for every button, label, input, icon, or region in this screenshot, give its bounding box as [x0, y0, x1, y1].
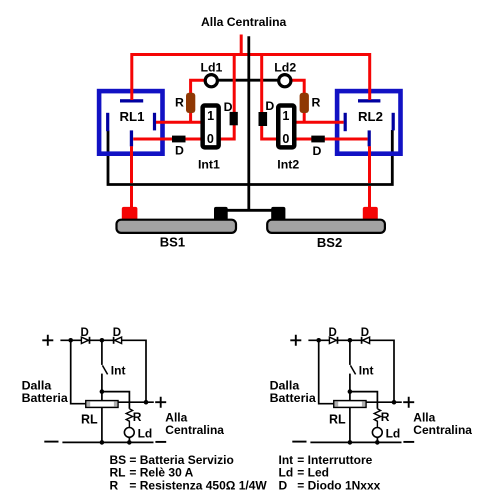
- svg-text:1: 1: [282, 109, 289, 123]
- svg-text:Int1: Int1: [198, 158, 220, 172]
- svg-text:Int: Int: [111, 364, 126, 378]
- svg-text:Ld2: Ld2: [274, 61, 296, 75]
- svg-text:BS2: BS2: [317, 235, 342, 250]
- svg-text:D: D: [224, 100, 233, 114]
- svg-text:RL1: RL1: [120, 109, 145, 124]
- svg-text:D: D: [265, 99, 274, 113]
- svg-text:R: R: [133, 410, 142, 424]
- svg-text:Batteria: Batteria: [22, 391, 68, 405]
- svg-text:R: R: [312, 96, 321, 110]
- svg-text:Alla Centralina: Alla Centralina: [201, 15, 287, 29]
- svg-text:0: 0: [282, 132, 289, 146]
- svg-text:D: D: [279, 478, 288, 492]
- svg-text:D: D: [313, 144, 322, 158]
- svg-text:RL2: RL2: [358, 109, 383, 124]
- svg-text:0: 0: [207, 132, 214, 146]
- svg-text:D: D: [81, 327, 89, 339]
- svg-text:R: R: [175, 96, 184, 110]
- svg-text:Ld1: Ld1: [201, 61, 223, 75]
- svg-text:BS1: BS1: [160, 235, 185, 250]
- svg-text:R: R: [110, 478, 119, 492]
- svg-text:D: D: [175, 143, 184, 157]
- svg-text:= Resistenza 450Ω 1/4W: = Resistenza 450Ω 1/4W: [129, 478, 267, 492]
- svg-text:RL: RL: [81, 412, 98, 426]
- svg-text:Int2: Int2: [277, 158, 299, 172]
- svg-text:Ld: Ld: [138, 426, 153, 440]
- svg-text:Centralina: Centralina: [165, 423, 224, 437]
- svg-text:Batteria: Batteria: [270, 391, 316, 405]
- svg-text:1: 1: [207, 109, 214, 123]
- svg-text:D: D: [113, 327, 121, 339]
- svg-text:= Diodo 1Nxxx: = Diodo 1Nxxx: [297, 478, 380, 492]
